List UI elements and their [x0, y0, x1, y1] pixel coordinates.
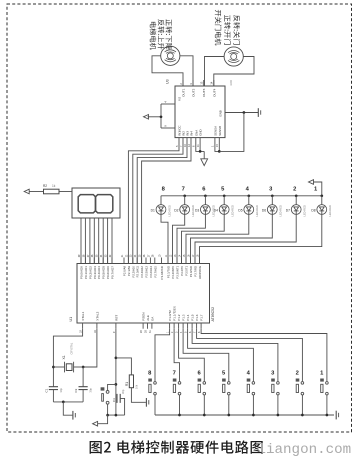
wire P1.7 to SW1: [201, 329, 327, 382]
svg-text:P0.6/AD6: P0.6/AD6: [106, 266, 110, 279]
pin 26 U1 P2.5/A13: [145, 258, 147, 264]
pin 6 U1 P1.5: [191, 323, 193, 329]
pin 1 U3 SENSA: [215, 138, 219, 152]
wire P1.4 to SW4: [188, 329, 254, 382]
svg-text:P0.7/AD7: P0.7/AD7: [111, 266, 115, 279]
svg-text:C1: C1: [44, 388, 48, 392]
pin 29 U1 PSEN: [142, 323, 144, 329]
pin 18 U1 AD/PROG: [199, 258, 201, 264]
svg-text:P3.4/T0: P3.4/T0: [180, 266, 184, 276]
LED D1: [151, 187, 172, 217]
svg-text:SENSB: SENSB: [218, 126, 222, 136]
svg-text:OUT4: OUT4: [212, 88, 216, 97]
svg-text:P3.7/RD: P3.7/RD: [194, 266, 198, 277]
wire D2 to U1: [173, 214, 185, 263]
pin 30 U1 ALE: [147, 323, 149, 329]
op-amp U3 motor driver L293D: [175, 86, 225, 138]
wire C1 C2 common: [53, 401, 83, 403]
svg-text:D7: D7: [286, 208, 290, 212]
svg-text:P2.2/A10: P2.2/A10: [131, 266, 135, 278]
pin 1 U1 P1.0/T2: [169, 323, 171, 329]
wire U3 IN4 to U1: [142, 138, 191, 264]
wire M2 right to U3 OUT4: [214, 57, 254, 87]
switch SW3 button: [271, 370, 279, 415]
svg-text:D6: D6: [262, 208, 266, 212]
svg-text:P2.5/A13: P2.5/A13: [145, 266, 149, 278]
power terminal R2: [24, 189, 29, 194]
ground under U3: [203, 151, 205, 158]
svg-text:VCC: VCC: [178, 125, 182, 132]
svg-text:2: 2: [296, 370, 299, 376]
wire M1 left to U3 OUT1: [152, 56, 183, 86]
svg-text:P3.2/INT0: P3.2/INT0: [171, 266, 175, 279]
label M2 开关门电机/正转:开门/反转:关门: [215, 10, 240, 45]
wire SENS to ENB: [219, 113, 244, 152]
svg-text:R1: R1: [125, 382, 129, 386]
svg-text:GND: GND: [199, 129, 203, 135]
pin 33 U1 P0.6/AD6: [107, 258, 109, 264]
svg-text:P1.4: P1.4: [186, 314, 190, 321]
pin 3 U3 OUT2: [192, 80, 194, 86]
pin 38 U1 P0.1/AD1: [84, 258, 86, 264]
svg-text:D3: D3: [195, 208, 199, 212]
wire D8 to U1: [200, 214, 322, 263]
svg-text:7: 7: [173, 370, 176, 376]
svg-text:LED-RED: LED-RED: [255, 205, 259, 217]
wire P1.6 to SW2: [197, 329, 303, 382]
wire M2 left to U3 OUT3: [205, 57, 225, 87]
pin 16 U1 P3.6/WR: [190, 258, 192, 264]
pin 5 U1 P1.4: [187, 323, 189, 329]
label M1 电梯电机/反转:上升/正转:下降: [150, 19, 172, 49]
svg-text:P1.1/T2EX: P1.1/T2EX: [173, 306, 177, 321]
svg-text:P3.3/INT1: P3.3/INT1: [176, 266, 180, 279]
wire XTAL2 net: [83, 329, 97, 367]
wire U3 IN2 to U1: [133, 138, 183, 264]
wire P1.1 to SW7: [174, 329, 179, 382]
pin 19 U1 XTAL1: [82, 323, 84, 329]
svg-text:P0.4/AD4: P0.4/AD4: [97, 266, 101, 279]
svg-text:LED-RED: LED-RED: [303, 205, 307, 217]
svg-text:LED-RED: LED-RED: [328, 205, 332, 217]
pin 32 U1 P0.7/AD7: [111, 258, 113, 264]
svg-text:OUT3: OUT3: [202, 88, 206, 97]
pin 2 U3 OUT1: [182, 80, 184, 86]
wire P1.3 to SW5: [183, 329, 229, 382]
svg-text:P2.4/A12: P2.4/A12: [140, 266, 144, 278]
capacitor C3: [117, 394, 120, 403]
svg-text:P0.1/AD1: P0.1/AD1: [84, 266, 88, 279]
wire switch common bus: [155, 414, 334, 416]
svg-text:D2: D2: [174, 208, 178, 212]
wire D6 to U1: [191, 214, 273, 263]
wire RST net: [115, 329, 117, 415]
pin 8 U3 GND: [199, 138, 201, 152]
pin 15 U3 SENSB: [218, 138, 220, 152]
switch SW6 button: [197, 370, 205, 415]
svg-text:P0.2/AD2: P0.2/AD2: [88, 266, 92, 279]
push button reset: [108, 384, 116, 390]
LED D2: [174, 187, 195, 217]
pin 37 U1 P0.2/AD2: [89, 258, 91, 264]
svg-text:P1.5: P1.5: [191, 314, 195, 321]
pin 24 U1 P2.3/A11: [136, 258, 138, 264]
pin 21 U1 P2.0/A8: [123, 258, 125, 264]
svg-text:P1.7: P1.7: [200, 314, 204, 321]
wire reset common: [108, 414, 125, 416]
pin 27 U1 P2.6/A14: [149, 258, 151, 264]
wire DS1 segment bus to U1 P0: [80, 218, 82, 264]
wire U3 IN1 to U1: [128, 138, 179, 264]
svg-text:X1: X1: [62, 355, 66, 359]
svg-text:IN4: IN4: [190, 131, 194, 136]
svg-text:P3.5/T1: P3.5/T1: [185, 266, 189, 276]
wire VS-VCC bracket: [160, 104, 162, 128]
capacitor C1: [49, 387, 58, 390]
wire U3 IN3 to U1: [137, 138, 187, 264]
svg-text:GND: GND: [230, 80, 233, 86]
pin 36 U1 P0.3/AD3: [93, 258, 95, 264]
wire D3 to U1: [177, 214, 205, 263]
7-segment display DS1: [72, 188, 120, 218]
svg-text:1k: 1k: [52, 184, 56, 188]
wire D7 to U1: [195, 214, 296, 263]
svg-text:XTAL2: XTAL2: [95, 311, 99, 320]
pin 12 U1 P3.2/INT0: [172, 258, 174, 264]
svg-text:AT89C52: AT89C52: [211, 307, 215, 322]
svg-text:2: 2: [293, 187, 296, 193]
motor M1 elevator motor: [161, 46, 180, 65]
svg-text:RST: RST: [114, 315, 118, 321]
terminal ENB: [257, 108, 259, 117]
switch SW8 button: [148, 370, 156, 415]
svg-text:C2: C2: [74, 388, 78, 392]
mcu U1 AT89C52: [77, 264, 210, 324]
power terminal reset: [98, 415, 108, 424]
svg-text:VS: VS: [178, 97, 182, 101]
pin 7 U1 P1.6: [196, 323, 198, 329]
resistor R1: [116, 358, 131, 375]
pin 10 U1 P3.0/RXD stub: [161, 258, 163, 264]
pin 4 U1 P1.3: [182, 323, 184, 329]
pin 22 U1 P2.1/A9: [127, 258, 129, 264]
pin 39 U1 P0.0/AD0: [80, 258, 82, 264]
svg-text:P0.3/AD3: P0.3/AD3: [93, 266, 97, 279]
pin 15 U1 P3.5/T1: [185, 258, 187, 264]
LED D6: [262, 187, 283, 217]
svg-text:P2.1/A9: P2.1/A9: [127, 266, 131, 276]
pin 13 U1 P3.3/INT1: [176, 258, 178, 264]
ground terminal R1: [131, 388, 146, 403]
svg-text:D1: D1: [151, 208, 155, 212]
svg-text:P2.0/A8: P2.0/A8: [123, 266, 127, 276]
pin 6 U3 ENA: [196, 138, 204, 152]
pin 17 U1 P3.7/RD: [194, 258, 196, 264]
wire R2 to DS1: [59, 191, 72, 193]
wire LED anode bus: [161, 195, 322, 197]
wire D1 to U1: [161, 214, 168, 263]
pin 14 U3 OUT4: [213, 80, 215, 86]
LED D7: [286, 187, 307, 217]
svg-text:30p: 30p: [59, 388, 63, 393]
resistor R2: [30, 191, 44, 193]
switch SW1 button: [320, 370, 328, 415]
svg-text:P2.7/A15: P2.7/A15: [153, 266, 157, 278]
svg-text:LED-RED: LED-RED: [231, 205, 235, 217]
svg-text:30p: 30p: [88, 388, 92, 393]
svg-text:10k: 10k: [134, 384, 138, 389]
wire D5 to U1: [186, 214, 249, 263]
motor M2 door motor: [224, 47, 243, 66]
svg-text:XTAL1: XTAL1: [81, 311, 85, 320]
pin 8 U1 P1.7: [200, 323, 202, 329]
svg-text:D8: D8: [311, 208, 315, 212]
svg-text:C3: C3: [112, 398, 116, 402]
LED D5: [238, 187, 259, 217]
pin 14 U1 P3.4/T0: [181, 258, 183, 264]
svg-text:U1: U1: [69, 317, 73, 322]
svg-text:7: 7: [182, 187, 185, 193]
pin 25 U1 P2.4/A12: [141, 258, 143, 264]
svg-text:P0.0/AD0: P0.0/AD0: [80, 266, 84, 279]
wire P1.0 to SW8: [155, 329, 170, 382]
svg-text:U3: U3: [165, 79, 169, 84]
LED D4: [214, 187, 235, 217]
svg-text:P2.6/A14: P2.6/A14: [149, 266, 153, 278]
svg-text:P0.5/AD5: P0.5/AD5: [102, 266, 106, 279]
svg-text:ENB: ENB: [219, 110, 223, 116]
svg-text:OUT1: OUT1: [182, 88, 186, 97]
ground terminal switch bus: [335, 411, 337, 420]
svg-text:P3.6/WR: P3.6/WR: [189, 266, 193, 277]
pin 35 U1 P0.4/AD4: [98, 258, 100, 264]
svg-text:D4: D4: [214, 208, 218, 212]
pin 3 U1 P1.2: [178, 323, 180, 329]
caption 图2 电梯控制器硬件电路图: [90, 440, 263, 453]
svg-text:LED-RED: LED-RED: [167, 205, 171, 217]
ground terminal crystal: [63, 402, 72, 415]
svg-text:P1.6: P1.6: [195, 314, 199, 321]
switch SW4 button: [247, 370, 255, 415]
wire M1 right to U3 OUT2: [180, 56, 193, 86]
LED D8: [311, 187, 332, 217]
wire XTAL1 net: [53, 329, 82, 387]
power terminal LED bus: [314, 182, 322, 196]
wire P1.2 to SW6: [179, 329, 205, 382]
svg-text:LED-RED: LED-RED: [279, 205, 283, 217]
pin 18 U1 XTAL2: [96, 323, 98, 329]
pin 34 U1 P0.5/AD5: [102, 258, 104, 264]
pin 31 U1 EA: [151, 323, 153, 329]
switch SW7 button: [173, 370, 181, 415]
capacitor C2: [79, 387, 88, 390]
power terminal VS/VCC: [148, 116, 162, 118]
pin 4 U3 VS: [161, 103, 175, 105]
crystal X1: [53, 366, 64, 368]
svg-text:D5: D5: [238, 208, 242, 212]
svg-text:liangon.com: liangon.com: [258, 442, 352, 458]
pin 13 U3 OUT3: [203, 80, 205, 86]
svg-text:SENSA: SENSA: [213, 126, 217, 136]
svg-text:ALE: ALE: [146, 315, 150, 321]
svg-text:P1.2: P1.2: [177, 314, 181, 321]
svg-text:OUT2: OUT2: [192, 88, 196, 97]
svg-text:30p: 30p: [121, 389, 125, 394]
wire D4 to U1: [182, 214, 225, 263]
pin 11 U3 ENB: [225, 112, 258, 114]
svg-text:CRYSTAL: CRYSTAL: [70, 342, 74, 354]
svg-text:P3.1/TXD: P3.1/TXD: [167, 266, 171, 278]
switch SW5 button: [222, 370, 230, 415]
wire P1.5 to SW3: [192, 329, 278, 382]
svg-text:P2.3/A11: P2.3/A11: [136, 266, 140, 278]
pin 2 U1 P1.1/T2EX: [173, 323, 175, 329]
switch SW2 button: [296, 370, 304, 415]
pin 11 U1 P3.1/TXD: [167, 258, 169, 264]
svg-text:PSEN: PSEN: [142, 312, 146, 320]
LED D3: [195, 187, 216, 217]
svg-text:P1.3: P1.3: [182, 314, 186, 321]
svg-text:R2: R2: [43, 184, 47, 188]
svg-text:AD/PROG: AD/PROG: [198, 266, 202, 279]
svg-text:P1.0/T2: P1.0/T2: [168, 310, 172, 321]
pin 9 U1 RST: [115, 323, 117, 329]
svg-text:P3.0/RXD: P3.0/RXD: [160, 265, 164, 279]
pin 9 U3 VCC: [161, 127, 175, 129]
pin 28 U1 P2.7/A15: [154, 258, 156, 264]
pin 23 U1 P2.2/A10: [132, 258, 134, 264]
